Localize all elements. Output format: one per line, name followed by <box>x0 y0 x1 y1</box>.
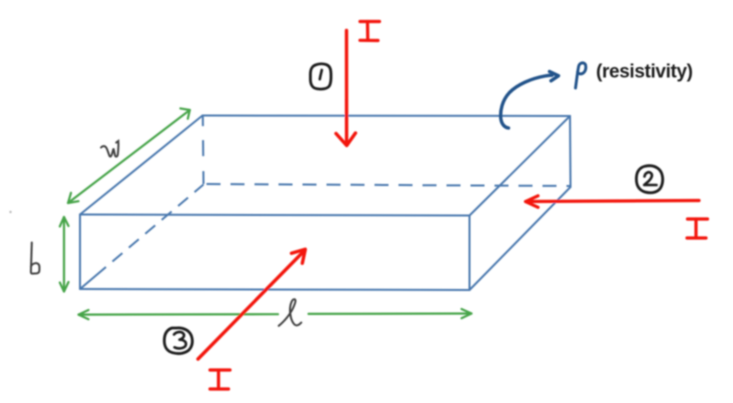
stray speck <box>9 211 11 213</box>
slab top face front edge A-B <box>80 215 470 216</box>
slab front face right vertical edge B-F <box>469 216 471 291</box>
digit 1 inside circle 1 <box>320 70 322 79</box>
current label I3 <box>210 370 230 389</box>
resistivity symbol rho <box>576 63 586 88</box>
slab right face back vertical edge D-H <box>569 116 572 187</box>
node label 3 (circled) <box>164 328 192 354</box>
slab top face left edge A-C <box>80 116 203 215</box>
digit 2 inside circle 2 <box>644 172 656 185</box>
resistivity callout curved arrow <box>501 72 559 129</box>
svg-text:(resistivity): (resistivity) <box>596 62 693 83</box>
current label I2 <box>687 219 708 238</box>
current arrow 2 (red, leftward into right face) <box>526 196 700 208</box>
node label 1 (circled) <box>310 64 331 89</box>
length label l (script ell) <box>279 299 302 326</box>
slab front face bottom edge E-F <box>80 289 470 290</box>
slab front face left vertical edge A-E <box>79 215 81 290</box>
current label I1 <box>360 22 380 41</box>
width dimension arrow w (green, double-headed) <box>68 108 190 203</box>
slab top face back edge C-D <box>203 115 571 118</box>
length dimension arrow l (green, double-headed, gap for label) <box>79 309 472 319</box>
slab top face right edge B-D <box>470 116 571 216</box>
node label 2 (circled) <box>636 166 662 193</box>
current arrow 3 (red, diagonal up-right through front face) <box>198 249 305 359</box>
slab hidden back-left vertical edge C-G dashed <box>202 116 205 184</box>
height label b <box>31 243 40 274</box>
slab hidden back bottom edge G-H dashed <box>207 184 571 186</box>
height dimension arrow b (green, double-headed) <box>60 217 69 292</box>
current arrow 1 (red, downward into top face) <box>336 31 356 146</box>
width label w <box>101 141 118 157</box>
slab right face bottom edge F-H <box>470 187 571 290</box>
slab hidden bottom-left edge E-G dashed <box>80 185 204 290</box>
digit 3 inside circle 3 <box>174 332 186 348</box>
resistivity text label <box>596 62 693 83</box>
